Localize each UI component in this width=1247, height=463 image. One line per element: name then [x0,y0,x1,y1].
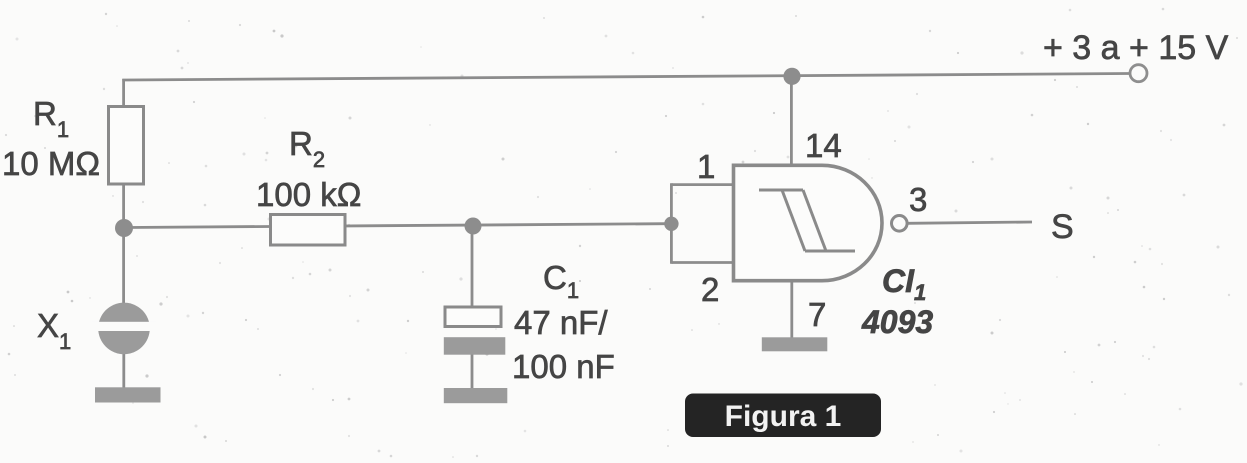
svg-text:100 kΩ: 100 kΩ [256,176,361,213]
svg-text:3: 3 [909,181,927,218]
svg-text:4093: 4093 [861,304,933,340]
svg-text:7: 7 [808,296,826,333]
svg-text:10 MΩ: 10 MΩ [2,145,100,182]
svg-text:14: 14 [805,127,842,164]
svg-text:2: 2 [701,271,719,308]
svg-text:Figura 1: Figura 1 [725,400,842,433]
svg-text:+ 3 a + 15 V: + 3 a + 15 V [1043,29,1229,67]
svg-text:S: S [1051,208,1074,246]
svg-text:47 nF/: 47 nF/ [514,304,608,341]
svg-text:1: 1 [697,148,715,185]
svg-text:100 nF: 100 nF [512,348,615,385]
